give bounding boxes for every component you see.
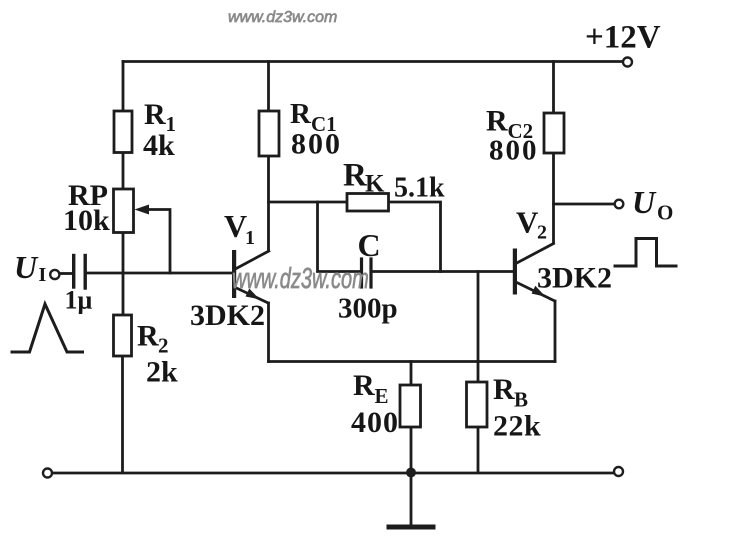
wire C right to V2 base — [373, 270, 514, 273]
resistor RB — [467, 382, 488, 427]
svg-text:2: 2 — [537, 222, 547, 244]
wire RB vertical from base line — [477, 272, 480, 383]
wire RP bottom through input node to R2 top — [122, 233, 125, 316]
svg-text:R: R — [144, 98, 166, 131]
resistor R2 — [114, 315, 132, 356]
wire R2 bottom to ground rail — [121, 356, 124, 473]
svg-text:R: R — [493, 373, 515, 406]
svg-text:R: R — [290, 98, 312, 130]
ground bar — [389, 525, 433, 530]
transistor V2 base bar — [513, 249, 517, 295]
svg-text:2k: 2k — [146, 356, 178, 389]
wire left column top (to R1) — [122, 62, 125, 112]
wire RB bottom to ground rail — [477, 427, 480, 472]
RP wiper arrowhead — [135, 205, 150, 215]
wire RC1 bottom to V1 collector node — [267, 156, 270, 251]
wire C branch left vertical — [318, 202, 361, 272]
svg-text:K: K — [365, 171, 385, 198]
resistor RC2 — [544, 113, 564, 153]
transistor V1 base bar — [232, 250, 236, 298]
wire RE top — [410, 362, 413, 386]
capacitor C 300p plates — [360, 259, 363, 287]
svg-text:www.dz3w.com: www.dz3w.com — [232, 262, 369, 295]
svg-text:1: 1 — [245, 227, 255, 249]
svg-text:www.dz3w.com: www.dz3w.com — [228, 9, 337, 26]
svg-text:3DK2: 3DK2 — [537, 262, 612, 295]
svg-text:+12V: +12V — [585, 20, 661, 56]
potentiometer RP — [114, 189, 134, 233]
wire V2 collector slant — [517, 244, 554, 264]
input triangle waveform — [12, 304, 83, 352]
wire RC1 column top — [267, 62, 270, 112]
resistor RE — [400, 385, 421, 427]
svg-text:R: R — [137, 320, 159, 353]
svg-text:1μ: 1μ — [65, 286, 93, 315]
wire V2 emitter slant — [517, 283, 555, 302]
wire top supply rail — [123, 60, 623, 63]
terminal input UI — [50, 270, 59, 279]
svg-text:V: V — [224, 208, 247, 244]
wire emitter rail — [269, 360, 556, 363]
V1 emitter arrowhead — [246, 289, 260, 300]
wire V1 emitter slant — [235, 288, 268, 304]
wire input terminal to coupling cap — [61, 272, 73, 275]
svg-text:2: 2 — [158, 334, 169, 358]
terminal output UO — [615, 200, 624, 209]
wire RP wiper arm — [147, 210, 170, 274]
capacitor C1 1u plates — [72, 256, 75, 288]
V2 emitter arrowhead — [532, 286, 546, 297]
svg-text:800: 800 — [291, 128, 342, 161]
svg-text:R: R — [353, 369, 375, 402]
svg-text:C: C — [358, 227, 381, 263]
wire V1 emitter vertical — [267, 303, 270, 362]
svg-text:U: U — [632, 184, 657, 220]
wire RE bottom to ground — [410, 427, 413, 473]
junction node dot — [406, 468, 416, 478]
wire RC2 bottom to V2 collector — [552, 153, 555, 243]
svg-text:800: 800 — [489, 135, 539, 167]
svg-text:10k: 10k — [63, 204, 110, 237]
svg-text:B: B — [514, 388, 528, 412]
svg-text:V: V — [516, 205, 539, 240]
wire collector node to RK left — [269, 201, 348, 204]
svg-text:U: U — [14, 249, 39, 285]
terminal ground left — [43, 469, 52, 478]
wire R1 bottom to RP top — [122, 153, 125, 190]
resistor RC1 — [259, 111, 279, 156]
terminal ground right — [614, 467, 623, 476]
wire output tap — [554, 203, 615, 206]
wire RC2 column top — [552, 62, 555, 114]
wire V2 emitter vertical — [554, 301, 557, 362]
wire RK right to right vertical — [389, 202, 441, 272]
svg-text:300p: 300p — [338, 293, 398, 325]
svg-text:I: I — [39, 264, 47, 286]
svg-text:22k: 22k — [493, 410, 541, 443]
svg-text:400: 400 — [351, 406, 399, 439]
wire coupling cap to V1 base — [87, 272, 233, 275]
wire V1 collector slant — [235, 251, 268, 269]
resistor R1 — [114, 111, 132, 153]
output pulse waveform — [615, 239, 676, 267]
wire ground rail — [52, 472, 614, 475]
ground stem — [410, 473, 413, 525]
svg-text:5.1k: 5.1k — [394, 173, 445, 204]
svg-text:4k: 4k — [143, 129, 175, 162]
svg-text:E: E — [375, 384, 389, 408]
resistor RK — [347, 194, 389, 212]
svg-text:R: R — [486, 105, 508, 138]
terminal +12V — [623, 58, 632, 67]
svg-text:3DK2: 3DK2 — [190, 299, 265, 332]
svg-text:O: O — [657, 201, 673, 225]
